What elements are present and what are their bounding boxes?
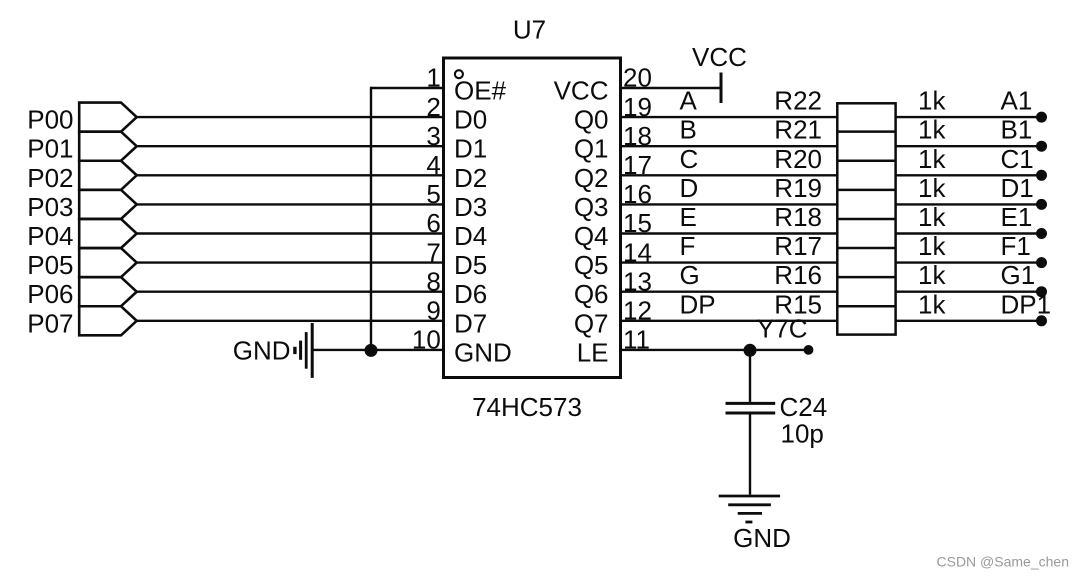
- svg-text:1: 1: [426, 63, 440, 93]
- svg-text:R16: R16: [774, 260, 822, 290]
- svg-text:P04: P04: [27, 221, 73, 251]
- svg-text:Q1: Q1: [574, 134, 609, 164]
- svg-text:1k: 1k: [918, 231, 946, 261]
- svg-text:P05: P05: [27, 250, 73, 280]
- svg-text:1k: 1k: [918, 115, 946, 145]
- wire U7 pin 17 to resistor R20: [621, 174, 838, 176]
- node dot output DP1: [1036, 315, 1047, 326]
- wire U7 pin 16 to resistor R19: [621, 203, 838, 205]
- svg-text:Q2: Q2: [574, 163, 609, 193]
- svg-text:D1: D1: [1001, 173, 1034, 203]
- wire P00 to U7 pin 2: [137, 116, 444, 118]
- node dot output E1: [1036, 228, 1047, 239]
- node dot output D1: [1036, 199, 1047, 210]
- wire P02 to U7 pin 4: [137, 174, 444, 176]
- svg-text:G1: G1: [1001, 260, 1036, 290]
- svg-text:3: 3: [426, 121, 440, 151]
- ground symbol GND (left, at U7 pin 10): [233, 323, 312, 378]
- port P02 connector flag: [79, 161, 137, 190]
- capacitor C24: [726, 403, 776, 413]
- node dot output F1: [1036, 257, 1047, 268]
- svg-text:P07: P07: [27, 308, 73, 338]
- svg-text:GND: GND: [454, 337, 512, 367]
- svg-text:R21: R21: [774, 115, 822, 145]
- svg-text:1k: 1k: [918, 260, 946, 290]
- svg-text:D: D: [680, 173, 699, 203]
- svg-text:1k: 1k: [918, 144, 946, 174]
- port P07 connector flag: [79, 306, 137, 335]
- svg-text:CSDN @Same_chen: CSDN @Same_chen: [937, 554, 1070, 570]
- junction dot OE#/GND/pin10 node: [365, 344, 378, 357]
- svg-text:Q7: Q7: [574, 308, 609, 338]
- svg-text:1k: 1k: [918, 289, 946, 319]
- svg-text:P02: P02: [27, 163, 73, 193]
- resistor network body (R22-R15): [837, 103, 895, 334]
- svg-text:2: 2: [426, 92, 440, 122]
- svg-text:B: B: [680, 115, 697, 145]
- wire P05 to U7 pin 7: [137, 261, 444, 263]
- svg-text:R20: R20: [774, 144, 822, 174]
- svg-text:A: A: [680, 86, 698, 116]
- svg-text:R22: R22: [774, 86, 822, 116]
- node dot output G1: [1036, 286, 1047, 297]
- svg-text:D3: D3: [454, 192, 487, 222]
- svg-text:VCC: VCC: [554, 76, 609, 106]
- svg-text:U7: U7: [513, 15, 546, 45]
- svg-text:LE: LE: [577, 337, 609, 367]
- svg-text:DP: DP: [680, 289, 716, 319]
- wire U7 pin 19 to resistor R22: [621, 116, 838, 118]
- svg-text:9: 9: [426, 296, 440, 326]
- wire U7 pin 15 to resistor R18: [621, 232, 838, 234]
- svg-text:E1: E1: [1001, 202, 1033, 232]
- wire R15 to output DP1: [896, 320, 1042, 322]
- svg-text:D5: D5: [454, 250, 487, 280]
- node dot output B1: [1036, 141, 1047, 152]
- svg-text:F: F: [680, 231, 696, 261]
- wire LE node down to C24: [749, 350, 751, 402]
- wire P07 to U7 pin 9: [137, 320, 444, 322]
- node dot output C1: [1036, 170, 1047, 181]
- svg-text:R19: R19: [774, 173, 822, 203]
- wire R19 to output D1: [896, 203, 1042, 205]
- svg-text:Q4: Q4: [574, 221, 609, 251]
- wire U7 pin 12 to resistor R15: [621, 320, 838, 322]
- svg-text:D6: D6: [454, 279, 487, 309]
- wire P01 to U7 pin 3: [137, 145, 444, 147]
- svg-text:1k: 1k: [918, 202, 946, 232]
- svg-text:DP1: DP1: [1001, 289, 1052, 319]
- svg-text:8: 8: [426, 266, 440, 296]
- port P01 connector flag: [79, 132, 137, 161]
- wire R21 to output B1: [896, 145, 1042, 147]
- svg-text:10: 10: [412, 325, 441, 355]
- svg-text:5: 5: [426, 179, 440, 209]
- svg-text:F1: F1: [1001, 231, 1031, 261]
- junction dot LE/C24 node: [744, 344, 757, 357]
- wire R16 to output G1: [896, 291, 1042, 293]
- svg-text:10p: 10p: [781, 419, 824, 449]
- svg-text:B1: B1: [1001, 115, 1033, 145]
- svg-text:Q6: Q6: [574, 279, 609, 309]
- svg-text:Y7C: Y7C: [757, 314, 808, 344]
- svg-text:G: G: [680, 260, 700, 290]
- svg-text:E: E: [680, 202, 697, 232]
- svg-text:VCC: VCC: [692, 42, 747, 72]
- wire OE# down to GND net: [370, 87, 372, 350]
- port P00 connector flag: [79, 103, 137, 132]
- wire U7 pin 11 (LE) to net Y7C: [621, 349, 809, 351]
- svg-text:C1: C1: [1001, 144, 1034, 174]
- svg-text:1k: 1k: [918, 173, 946, 203]
- wire U7 pin 18 to resistor R21: [621, 145, 838, 147]
- svg-text:D2: D2: [454, 163, 487, 193]
- svg-text:GND: GND: [233, 335, 291, 365]
- svg-text:D7: D7: [454, 308, 487, 338]
- svg-text:6: 6: [426, 208, 440, 238]
- wire R17 to output F1: [896, 261, 1042, 263]
- ground symbol GND (bottom): [719, 496, 780, 522]
- wire P04 to U7 pin 6: [137, 232, 444, 234]
- svg-text:Q3: Q3: [574, 192, 609, 222]
- wire P06 to U7 pin 8: [137, 291, 444, 293]
- op IC U7 74HC573 body: [444, 58, 621, 378]
- node dot output A1: [1036, 112, 1047, 123]
- svg-text:7: 7: [426, 237, 440, 267]
- svg-text:C: C: [680, 144, 699, 174]
- svg-text:4: 4: [426, 150, 440, 180]
- pin 1 active-low indicator circle: [455, 70, 463, 78]
- port P04 connector flag: [79, 219, 137, 248]
- wire U7 pin 20 to VCC: [621, 87, 722, 89]
- svg-text:1k: 1k: [918, 86, 946, 116]
- svg-text:R18: R18: [774, 202, 822, 232]
- wire R18 to output E1: [896, 232, 1042, 234]
- wire R20 to output C1: [896, 174, 1042, 176]
- svg-text:D0: D0: [454, 105, 487, 135]
- svg-text:Q5: Q5: [574, 250, 609, 280]
- wire U7 pin 14 to resistor R17: [621, 261, 838, 263]
- svg-text:Q0: Q0: [574, 105, 609, 135]
- port P06 connector flag: [79, 277, 137, 306]
- node dot Y7C net end: [804, 345, 814, 355]
- svg-text:D4: D4: [454, 221, 487, 251]
- svg-text:D1: D1: [454, 134, 487, 164]
- svg-text:R17: R17: [774, 231, 822, 261]
- port P05 connector flag: [79, 248, 137, 277]
- svg-text:P03: P03: [27, 192, 73, 222]
- wire R22 to output A1: [896, 116, 1042, 118]
- svg-text:C24: C24: [780, 392, 828, 422]
- wire P03 to U7 pin 5: [137, 203, 444, 205]
- svg-text:A1: A1: [1001, 86, 1033, 116]
- svg-text:OE#: OE#: [454, 76, 507, 106]
- svg-text:P00: P00: [27, 105, 73, 135]
- port P03 connector flag: [79, 190, 137, 219]
- wire U7 pin 13 to resistor R16: [621, 291, 838, 293]
- svg-text:P06: P06: [27, 279, 73, 309]
- svg-text:74HC573: 74HC573: [472, 392, 582, 422]
- wire U7 pin 1 (OE#) horizontal: [371, 87, 444, 89]
- wire GND symbol to U7 pin 10: [313, 349, 444, 351]
- svg-text:P01: P01: [27, 134, 73, 164]
- power symbol VCC stub bar: [720, 73, 723, 104]
- svg-text:GND: GND: [733, 523, 791, 553]
- wire C24 to ground: [749, 415, 751, 495]
